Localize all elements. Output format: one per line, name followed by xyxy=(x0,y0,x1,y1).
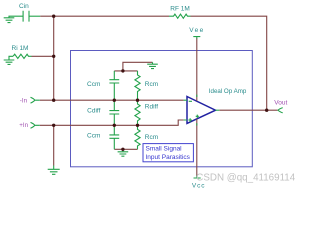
svg-text:Rcm: Rcm xyxy=(145,134,158,141)
svg-text:Cdiff: Cdiff xyxy=(87,108,100,115)
svg-text:Rcm: Rcm xyxy=(145,81,158,88)
svg-text:Vout: Vout xyxy=(274,100,287,107)
svg-text:+In: +In xyxy=(19,122,28,129)
svg-text:-In: -In xyxy=(20,97,28,104)
svg-text:Ccm: Ccm xyxy=(87,132,100,139)
svg-text:Small Signal: Small Signal xyxy=(146,146,183,153)
svg-text:Rdiff: Rdiff xyxy=(145,103,158,110)
svg-text:Ri 1M: Ri 1M xyxy=(12,45,29,52)
svg-text:Input Parasitics: Input Parasitics xyxy=(146,154,191,161)
svg-text:Cin: Cin xyxy=(19,3,29,10)
svg-text:Ccm: Ccm xyxy=(87,81,100,88)
svg-text:CSDN @qq_41169114: CSDN @qq_41169114 xyxy=(196,172,295,183)
svg-text:RF 1M: RF 1M xyxy=(170,6,190,13)
svg-text:Vee: Vee xyxy=(189,27,204,34)
svg-text:Ideal Op Amp: Ideal Op Amp xyxy=(209,88,247,95)
